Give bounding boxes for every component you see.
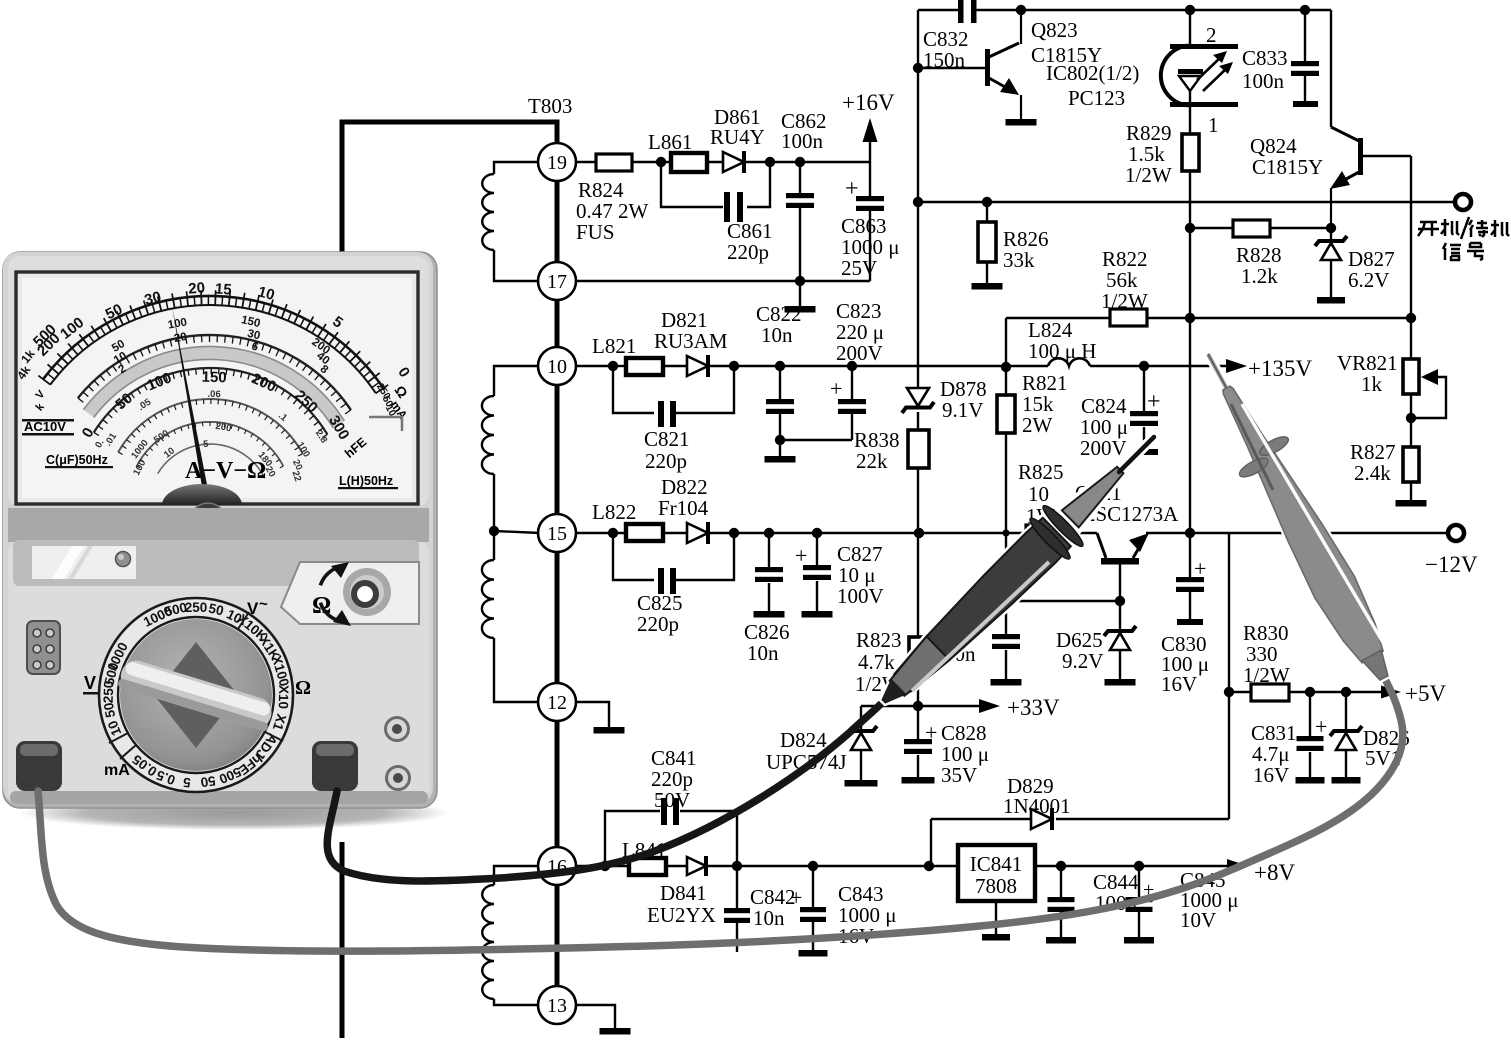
svg-text:+: + <box>1194 556 1206 581</box>
capacitor C829 <box>1005 601 1007 634</box>
svg-text:13: 13 <box>547 995 567 1017</box>
multimeter lower panel <box>8 540 429 803</box>
node C862 bottom on pin17 line <box>795 276 805 286</box>
wire pin16 row <box>576 865 629 867</box>
node IC841 input <box>924 861 934 871</box>
svg-text:V: V <box>247 599 259 618</box>
svg-text:+5V: +5V <box>1405 681 1446 706</box>
node Q821 base <box>1115 596 1125 606</box>
svg-text:250: 250 <box>101 680 117 703</box>
ground below C862 <box>799 281 801 306</box>
svg-text:Fr104: Fr104 <box>658 496 709 520</box>
svg-text:Ω: Ω <box>295 677 311 699</box>
svg-text:250: 250 <box>185 600 208 615</box>
svg-text:10n: 10n <box>747 641 779 665</box>
ground pin12 <box>576 702 609 727</box>
input jack plug left <box>16 741 62 791</box>
wire +135V <box>1090 365 1226 367</box>
svg-text:+: + <box>845 176 859 202</box>
capacitor C822 <box>775 361 785 371</box>
node C841 left <box>600 861 610 871</box>
node T803 pin 12 <box>538 683 576 721</box>
wire R822 left drop to B+ <box>1005 318 1007 367</box>
multimeter shadow <box>20 796 450 830</box>
svg-text:C833: C833 <box>1242 46 1288 70</box>
zener D826 5V1 <box>1341 687 1351 697</box>
svg-text:−12V: −12V <box>1425 552 1478 577</box>
rotary dial ring <box>99 598 293 792</box>
panel window <box>32 546 136 579</box>
svg-text:50: 50 <box>200 773 217 790</box>
capacitor C827 electrolytic <box>812 528 822 538</box>
wire D829 row <box>1228 533 1230 819</box>
capacitor C843 electrolytic <box>812 866 814 907</box>
terminal standby output <box>1455 194 1471 210</box>
probe black front cone <box>1062 467 1124 528</box>
multimeter body <box>3 252 437 808</box>
svg-text:1N4001: 1N4001 <box>1003 794 1071 818</box>
probe gray needle <box>1208 354 1228 391</box>
svg-text:mA: mA <box>104 762 130 779</box>
label standby signal (Chinese) <box>1418 217 1509 260</box>
wire vertical bus x918 <box>917 10 919 387</box>
probe gray body <box>1223 386 1383 663</box>
svg-text:220p: 220p <box>645 449 687 473</box>
svg-text:+8V: +8V <box>1254 860 1295 885</box>
node C843 junction <box>808 861 818 871</box>
node -12V bus junction <box>914 528 924 538</box>
meter scale arc 5 <box>137 422 284 466</box>
power arrow +135V <box>1226 359 1247 373</box>
node D822 cathode <box>729 528 739 538</box>
wire standby signal line <box>918 201 1454 203</box>
svg-text:~: ~ <box>259 596 268 613</box>
svg-text:R823: R823 <box>856 628 902 652</box>
svg-text:Q823: Q823 <box>1031 18 1078 42</box>
capacitor C845 electrolytic <box>1134 861 1144 871</box>
capacitor C832 150n (series) <box>958 0 964 23</box>
resistor R827 2.4k <box>1410 394 1412 447</box>
svg-text:RU3AM: RU3AM <box>654 329 728 353</box>
svg-text:220p: 220p <box>637 612 679 636</box>
svg-text:50V: 50V <box>654 788 690 812</box>
svg-text:+16V: +16V <box>842 90 895 115</box>
svg-text:100n: 100n <box>781 129 824 153</box>
transistor Q824 C1815Y <box>1330 10 1332 127</box>
resistor R825 10 1W <box>1026 525 1064 542</box>
power arrow +33V <box>979 699 1000 713</box>
wire top rail with C832 <box>918 9 959 11</box>
probe black main shaft <box>883 518 1071 703</box>
svg-text:150: 150 <box>201 369 227 387</box>
rotary knob handle <box>117 657 275 732</box>
regulator IC841 7808 <box>958 845 1035 901</box>
probe gray cable <box>38 677 1403 951</box>
diode D829 1N4001 <box>1031 809 1052 829</box>
probe black needle <box>1119 437 1154 472</box>
svg-text:22k: 22k <box>856 449 888 473</box>
svg-text:10V: 10V <box>1180 908 1216 932</box>
capacitor C828 electrolytic <box>917 706 919 739</box>
LED emission arrows <box>1197 56 1222 80</box>
resistor R826 33k <box>982 197 992 207</box>
diode D822 Fr104 <box>687 523 708 543</box>
input jack plug right <box>312 741 358 791</box>
connector block <box>27 621 60 674</box>
svg-text:2.4k: 2.4k <box>1354 461 1391 485</box>
node D821 cathode <box>729 361 739 371</box>
probe black mid segment <box>890 636 950 695</box>
capacitor C862 <box>795 157 805 167</box>
node T803 pin 15 <box>538 514 576 552</box>
wire +5V row <box>1229 691 1251 693</box>
svg-text:100V: 100V <box>837 584 884 608</box>
resistor R824 <box>596 154 632 171</box>
svg-text:L(H)50Hz: L(H)50Hz <box>339 474 393 488</box>
wire +33V row <box>861 705 980 707</box>
svg-text:100n: 100n <box>1242 69 1285 93</box>
resistor R829 1.5k 1/2W <box>1189 107 1191 134</box>
meter scale top numbers <box>30 279 413 380</box>
svg-text:6.2V: 6.2V <box>1348 268 1389 292</box>
power arrow +16V <box>869 140 871 162</box>
node C824 top <box>1139 361 1149 371</box>
svg-text:T803: T803 <box>528 94 572 118</box>
node T803 pin 19 <box>538 143 576 181</box>
svg-text:9.1V: 9.1V <box>942 398 983 422</box>
inductor L822 <box>626 524 663 541</box>
panel screw <box>116 552 131 567</box>
meter scale arc 4 <box>118 399 303 454</box>
svg-text:9.2V: 9.2V <box>1062 649 1103 673</box>
transformer T803 secondary pin bus <box>555 144 560 1005</box>
meter scale volt numbers <box>79 369 353 443</box>
svg-text:D841: D841 <box>660 881 707 905</box>
optocoupler IC802(1/2) PC123 LED side <box>1189 10 1191 45</box>
svg-text:IC802(1/2): IC802(1/2) <box>1046 61 1139 85</box>
node C822/C823 ground junction <box>775 435 785 445</box>
node R829 bus crossing <box>1185 313 1195 323</box>
svg-text:19: 19 <box>547 152 567 174</box>
meter needle <box>172 306 211 505</box>
svg-text:1/2W: 1/2W <box>1101 289 1148 313</box>
wire thick primary-side lead below multimeter <box>340 842 345 1038</box>
capacitor C842 <box>736 866 738 908</box>
capacitor C830 electrolytic <box>1185 528 1195 538</box>
wire pin15 -12V row <box>576 532 626 534</box>
capacitor C824 electrolytic <box>1143 366 1145 411</box>
wire R822 row <box>1006 317 1110 319</box>
capacitor C823 electrolytic <box>851 366 853 399</box>
node B+ / R821 junction <box>1001 362 1011 372</box>
capacitor C831 electrolytic <box>1305 687 1315 697</box>
winding T803 16-13 <box>494 866 540 885</box>
ground pin13 <box>576 1005 615 1028</box>
node T803 pin 13 <box>538 986 576 1024</box>
svg-text:10: 10 <box>547 356 567 378</box>
terminal -12V output <box>1448 525 1464 541</box>
svg-text:4.7k: 4.7k <box>858 650 895 674</box>
node T803 pin 17 <box>538 262 576 300</box>
capacitor C844 <box>1056 861 1066 871</box>
multimeter display window <box>16 272 418 504</box>
meter scale main arc <box>43 296 383 388</box>
meter scale arc 6 <box>158 444 265 478</box>
probe gray highlight stripe <box>1242 404 1384 644</box>
capacitor C821 bypass loop <box>613 366 654 413</box>
svg-text:C1815Y: C1815Y <box>1252 155 1323 179</box>
wire pin10 B+ row <box>576 365 613 367</box>
meter scale small numbers <box>93 389 329 483</box>
svg-text:C821: C821 <box>644 427 690 451</box>
svg-text:200V: 200V <box>1080 436 1127 460</box>
svg-text:+: + <box>795 543 807 568</box>
winding T803 19-17 <box>494 162 540 174</box>
meter scale arc 3 V <box>94 368 328 434</box>
svg-text:10n: 10n <box>761 323 793 347</box>
svg-text:C(μF)50Hz: C(μF)50Hz <box>46 453 108 467</box>
svg-text:V: V <box>84 673 96 693</box>
capacitor C841 bypass loop <box>605 811 660 866</box>
probe black cable <box>327 699 886 881</box>
ohm adjust arrows <box>320 566 342 585</box>
spare jacks <box>386 718 409 741</box>
node T803 pin 10 <box>538 347 576 385</box>
probe gray dark spine <box>1231 404 1273 490</box>
capacitor C826 <box>764 528 774 538</box>
svg-text:17: 17 <box>547 271 567 293</box>
node VR821 wiper junction <box>1406 413 1416 423</box>
svg-text:EU2YX: EU2YX <box>647 903 716 927</box>
svg-text:200V: 200V <box>836 341 883 365</box>
svg-text:20: 20 <box>188 279 206 297</box>
svg-text:12: 12 <box>547 692 567 714</box>
node R821 crossing -12V <box>1002 529 1009 536</box>
svg-text:10n: 10n <box>753 906 785 930</box>
svg-text:15: 15 <box>214 280 232 298</box>
capacitor C863 electrolytic <box>869 162 871 196</box>
svg-text:1.2k: 1.2k <box>1241 264 1278 288</box>
svg-text:1/2W: 1/2W <box>1125 163 1172 187</box>
svg-text:10: 10 <box>1028 482 1049 506</box>
capacitor C861 bypass loop <box>661 162 723 207</box>
zener D625 9.2V <box>1119 601 1121 630</box>
inductor L821 <box>626 358 663 375</box>
probe gray halo <box>1207 353 1388 680</box>
probe gray tail cone <box>1362 650 1388 680</box>
node R822 right / Q824 base <box>1406 313 1416 323</box>
meter right bracket <box>369 417 402 431</box>
node C825 left <box>608 528 618 538</box>
inductor L861 <box>671 153 707 172</box>
rotary dial range labels <box>101 600 292 791</box>
svg-text:+: + <box>1315 714 1327 739</box>
node +5V branch <box>1224 687 1234 697</box>
inductor L841 <box>629 858 666 875</box>
node +33V junction <box>913 701 923 711</box>
svg-text:R825: R825 <box>1018 460 1064 484</box>
svg-text:L861: L861 <box>648 130 692 154</box>
svg-text:15: 15 <box>547 523 567 545</box>
node C842 junction <box>732 861 742 871</box>
svg-text:1k: 1k <box>1361 372 1383 396</box>
meter scale arc 2 <box>78 335 351 410</box>
svg-text:2W: 2W <box>1022 413 1053 437</box>
svg-text:16V: 16V <box>1161 672 1197 696</box>
meter scale side labels 1k 4k <box>14 347 38 383</box>
svg-text:+: + <box>790 885 802 910</box>
resistor R822 56k 1/2W <box>1110 309 1147 326</box>
svg-text:33k: 33k <box>1003 248 1035 272</box>
probe black tail cone <box>882 679 906 703</box>
inductor L824 100uH <box>1048 358 1090 366</box>
svg-text:7808: 7808 <box>975 874 1017 898</box>
diode D821 RU3AM <box>687 356 708 376</box>
resistor R828 1.2k <box>1185 223 1195 233</box>
svg-text:L822: L822 <box>592 500 636 524</box>
svg-text:20: 20 <box>173 331 188 345</box>
svg-text:X10: X10 <box>276 685 291 709</box>
meter needle shroud <box>162 484 242 505</box>
capacitor C833 <box>1300 5 1310 15</box>
svg-text:A−V−Ω: A−V−Ω <box>185 458 266 484</box>
svg-text:D824: D824 <box>780 728 827 752</box>
svg-text:100 μ H: 100 μ H <box>1028 339 1096 363</box>
svg-text:16V: 16V <box>1253 763 1289 787</box>
ohm adjust cutout <box>281 562 419 624</box>
diode D861 RU4Y <box>723 152 744 172</box>
transistor Q821 2SC1273A <box>1101 558 1139 565</box>
svg-text:+: + <box>1147 389 1161 415</box>
zener D827 6.2V <box>1326 223 1336 233</box>
winding T803 10-15 <box>494 366 540 396</box>
capacitor C825 bypass loop <box>613 533 654 580</box>
node L861 left <box>656 157 666 167</box>
svg-text:220p: 220p <box>727 240 769 264</box>
winding T803 15-12 <box>482 560 494 638</box>
svg-text:1/2W: 1/2W <box>1243 663 1290 687</box>
node winding junction at pin 15 <box>489 526 499 536</box>
node T803 pin 16 <box>538 847 576 885</box>
resistor R823 4.7k 1/2W <box>917 533 919 637</box>
svg-text:+: + <box>830 376 842 401</box>
svg-text:25V: 25V <box>841 256 877 280</box>
resistor R830 330 1/2W <box>1251 684 1289 701</box>
svg-text:IC841: IC841 <box>970 852 1023 876</box>
zener D878 9.1V <box>907 388 929 406</box>
rotary knob <box>120 619 272 771</box>
svg-text:+33V: +33V <box>1007 695 1060 720</box>
svg-text:35V: 35V <box>941 763 977 787</box>
probe black collar rings <box>1026 515 1073 563</box>
svg-text:PC123: PC123 <box>1068 86 1125 110</box>
wire thick lead from multimeter top to T803 pin 19 <box>342 122 557 252</box>
node C821 left <box>608 361 618 371</box>
svg-text:2: 2 <box>1206 23 1217 47</box>
meter right small 250 50 10 <box>374 382 398 419</box>
node D861 cathode <box>765 157 775 167</box>
svg-text:.06: .06 <box>207 389 221 400</box>
probe black body outline halo <box>883 436 1155 703</box>
svg-text:L821: L821 <box>592 334 636 358</box>
svg-text:+: + <box>925 720 937 745</box>
resistor R821 15k 2W <box>1005 367 1007 395</box>
svg-text:RU4Y: RU4Y <box>710 125 765 149</box>
meter scale stacked clusters <box>110 314 332 377</box>
probe gray collar petals <box>1257 433 1291 459</box>
probe black highlight stripe <box>912 562 1049 691</box>
zener D824 UPC574J <box>860 706 862 730</box>
resistor R838 22k <box>908 430 929 468</box>
ohm adjust knob <box>343 568 391 616</box>
wire pin19 row <box>576 161 596 163</box>
diode D841 EU2YX <box>687 857 706 875</box>
wire base line <box>1006 600 1120 602</box>
dial section separators <box>109 612 283 759</box>
svg-text:+135V: +135V <box>1248 356 1312 381</box>
power arrow +5V <box>1381 686 1401 699</box>
power arrow +8V <box>1227 859 1248 873</box>
meter mirror band <box>89 353 339 424</box>
meter zero adjust knob <box>190 503 226 539</box>
svg-text:50: 50 <box>101 701 118 718</box>
potentiometer VR821 1k <box>1410 318 1412 359</box>
wire pin17 row <box>576 280 870 282</box>
transistor Q823 C1815Y <box>913 63 923 73</box>
svg-text:1: 1 <box>1208 113 1219 137</box>
svg-text:FUS: FUS <box>576 220 615 244</box>
wire +8V row <box>1035 865 1228 867</box>
